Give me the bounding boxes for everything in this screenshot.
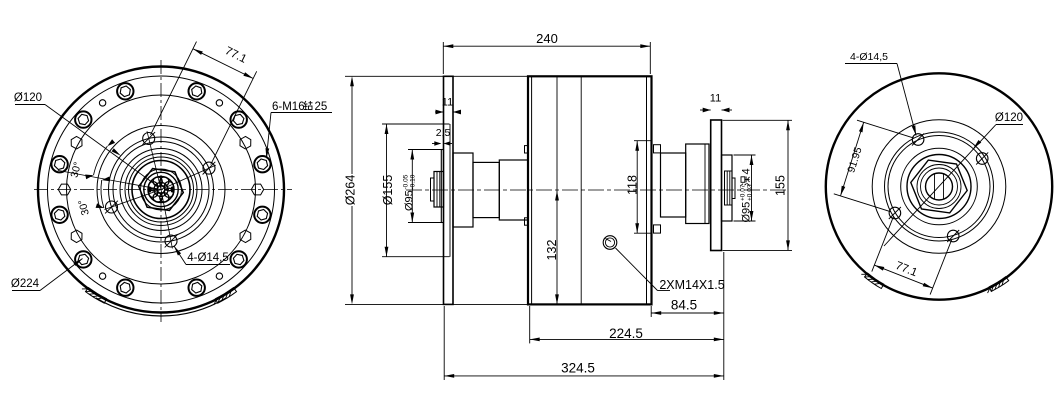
node center spline left view — [148, 177, 174, 203]
svg-text:Ø95: Ø95 — [404, 190, 416, 211]
svg-text:132: 132 — [545, 240, 559, 261]
svg-text:2,5: 2,5 — [436, 127, 451, 139]
left flange plate section — [444, 76, 454, 304]
dim 84.5 — [651, 312, 724, 314]
right hub cylinder B — [661, 153, 686, 217]
hub cylinder 1 section — [453, 153, 473, 227]
svg-text:84.5: 84.5 — [671, 298, 697, 313]
4x D14.5 holes on D120 bolt circle left view — [143, 133, 155, 145]
label 2XM14X1.5 — [616, 248, 658, 291]
threaded hole M14 on drum — [603, 236, 617, 250]
svg-text:-0.05: -0.05 — [403, 174, 410, 189]
hexagon right view — [911, 160, 967, 213]
wire left view centerline horizontal — [34, 189, 292, 191]
right hub cylinder C — [686, 144, 709, 224]
svg-text:118: 118 — [626, 175, 640, 195]
left spline shaft end — [434, 172, 444, 208]
dim D155 left — [386, 124, 388, 257]
svg-text:240: 240 — [536, 31, 558, 46]
dim 77.1 right view — [872, 217, 894, 272]
svg-text:Ø120: Ø120 — [14, 92, 42, 104]
dim 224.5 — [530, 338, 724, 340]
outer circle right view — [826, 73, 1052, 299]
drum outline section — [528, 76, 652, 304]
svg-text:Ø120: Ø120 — [995, 112, 1023, 124]
bolt holes 16x on D224 circle left view — [189, 83, 205, 99]
dim 77.1 left view — [151, 42, 197, 135]
4x D14.5 holes right view — [912, 134, 924, 146]
node hub flange outer circle left view — [38, 67, 284, 313]
rim tabs hatched left view — [86, 288, 107, 304]
spline bore lines right view — [934, 174, 936, 199]
svg-text:Ø95: Ø95 — [741, 202, 753, 223]
left flange boss edge — [449, 124, 451, 257]
node center hexagon left view — [139, 169, 184, 211]
dim D95 left tol — [411, 150, 413, 223]
hub cylinder 3 section — [499, 160, 528, 220]
dim 240 top — [443, 45, 650, 47]
svg-text:25: 25 — [315, 101, 328, 113]
radial construction lines left view — [147, 131, 161, 189]
hub cylinder 2 section — [473, 162, 499, 217]
right spigot D95 — [722, 155, 733, 221]
small holes on D224 circle left view — [216, 100, 222, 106]
retaining band bottom arc left view — [96, 298, 226, 316]
right shaft end step — [732, 178, 735, 199]
svg-text:11: 11 — [442, 97, 453, 109]
dim 91.95 right view — [857, 120, 914, 138]
rim tabs right view — [865, 273, 884, 288]
angular dim 30 deg upper left view — [94, 146, 108, 175]
svg-text:324.5: 324.5 — [561, 361, 595, 376]
dim 132 — [555, 191, 559, 201]
right flange plate section — [711, 120, 722, 251]
dim D95 right tol — [751, 155, 753, 221]
svg-text:155: 155 — [774, 175, 788, 196]
left shaft small step — [431, 178, 435, 201]
svg-text:4-Ø14,5: 4-Ø14,5 — [850, 51, 888, 63]
drum right wall tabs — [654, 145, 661, 153]
plain hex nuts inner ring left view — [240, 137, 251, 149]
svg-text:224.5: 224.5 — [609, 326, 643, 341]
svg-text:2XM14X1.5: 2XM14X1.5 — [659, 278, 724, 292]
left pilot ring D95 — [441, 150, 443, 223]
dim D264 — [351, 81, 353, 300]
drum left wall tabs — [525, 146, 529, 153]
right spline block — [725, 171, 733, 205]
dim 155 right — [787, 120, 789, 250]
svg-text:Ø264: Ø264 — [344, 175, 358, 206]
svg-text:Ø224: Ø224 — [11, 278, 40, 290]
svg-text:4-Ø14,5: 4-Ø14,5 — [187, 252, 229, 264]
wire left view centerline vertical — [160, 60, 162, 322]
wire section centerline — [406, 189, 788, 191]
dim 324.5 — [444, 375, 724, 377]
svg-text:6-M16: 6-M16 — [272, 101, 305, 113]
svg-text:+0.07: +0.07 — [740, 184, 747, 201]
svg-text:11: 11 — [710, 93, 721, 105]
svg-text:4: 4 — [741, 168, 753, 174]
svg-text:-0.10: -0.10 — [410, 174, 417, 189]
svg-text:+0.03: +0.03 — [747, 184, 754, 201]
svg-text:Ø155: Ø155 — [381, 175, 395, 206]
dim 118 — [636, 141, 638, 234]
